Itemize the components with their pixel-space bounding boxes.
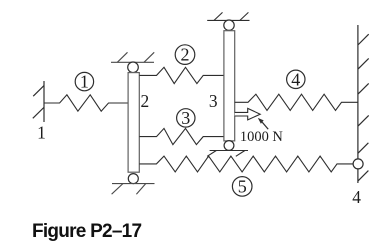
- right wall node 4 support: [358, 25, 369, 183]
- svg-text:3: 3: [209, 91, 218, 111]
- bar 3 bottom pin: [224, 141, 234, 151]
- spring 3 circled label: [177, 108, 195, 128]
- bar 2 top pin: [128, 62, 139, 73]
- svg-text:3: 3: [181, 108, 190, 128]
- spring 2: [139, 67, 224, 83]
- bar 3 element: [224, 31, 235, 141]
- bar 3 top pin: [224, 20, 234, 30]
- spring 5 circled label: [232, 177, 252, 197]
- svg-text:1: 1: [80, 72, 89, 92]
- spring 1: [44, 95, 128, 111]
- spring 3: [139, 128, 224, 144]
- bar 2 bottom support: [112, 184, 155, 195]
- svg-text:2: 2: [140, 91, 149, 111]
- svg-text:1: 1: [37, 123, 46, 143]
- bar 2 top support: [111, 52, 154, 62]
- bar 3 bottom support: [207, 151, 248, 157]
- spring 4: [235, 94, 358, 110]
- force arrow 1000 N: [235, 108, 261, 120]
- spring 2 circled label: [175, 45, 195, 65]
- svg-text:5: 5: [238, 177, 247, 197]
- svg-text:2: 2: [181, 45, 190, 65]
- svg-text:4: 4: [352, 187, 361, 207]
- bar 3 top support: [207, 12, 249, 20]
- svg-text:4: 4: [291, 69, 300, 89]
- spring 4 circled label: [287, 69, 305, 89]
- node 4 pin: [353, 159, 363, 169]
- figure caption: [32, 221, 141, 243]
- left wall node 1 support: [33, 81, 44, 122]
- force leader arrow: [258, 118, 268, 129]
- spring 1 circled label: [75, 72, 93, 92]
- bar 2 bottom pin: [128, 174, 138, 184]
- bar 2 element: [128, 73, 139, 173]
- spring 5: [139, 156, 353, 172]
- svg-text:1000 N: 1000 N: [240, 129, 283, 145]
